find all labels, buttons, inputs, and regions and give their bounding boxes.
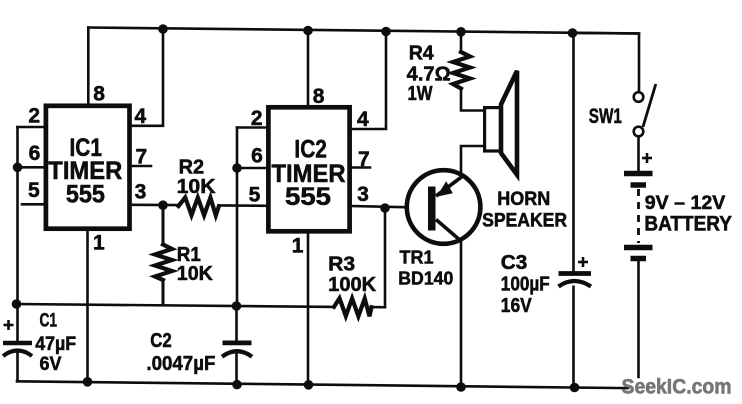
wire TR1 emitter to bottom rail (460, 241, 463, 388)
node top rail / IC1 pin 4 (158, 24, 168, 34)
svg-text:SeekIC.com: SeekIC.com (622, 376, 732, 399)
wire R3 to TR1 base node (371, 306, 385, 309)
label R1 value (177, 244, 214, 285)
resistor R4 (453, 52, 470, 89)
transistor TR1 (407, 170, 481, 244)
node IC2 pin 6 (232, 163, 242, 173)
svg-text:16V: 16V (501, 294, 532, 317)
wire IC1 pins 2-6 vertical to mid rail (16, 127, 19, 304)
node bottom rail / IC2 pin 1 (304, 380, 314, 390)
label R3 value (328, 254, 377, 296)
node top rail / R4 (456, 27, 466, 37)
wire SW1 to battery positive (637, 136, 640, 171)
IC1 text (48, 134, 122, 208)
resistor R3 (334, 298, 372, 316)
svg-text:SW1: SW1 (589, 105, 622, 128)
node IC2 pin 3 / R3 / TR1 base (380, 203, 390, 213)
svg-text:R2: R2 (179, 156, 205, 178)
wire C2 node down (235, 306, 238, 342)
wire IC2 pin 4 to top rail (352, 32, 386, 130)
node IC1 pin 3 / R1 / R2 (158, 200, 168, 210)
svg-text:2: 2 (28, 105, 40, 128)
label battery value (644, 192, 732, 235)
svg-text:3: 3 (135, 181, 147, 204)
svg-text:6: 6 (29, 142, 41, 165)
resistor R2 (179, 197, 219, 215)
node bottom rail / TR1 emitter (456, 382, 466, 392)
svg-text:1W: 1W (408, 83, 433, 105)
svg-text:3: 3 (357, 183, 369, 206)
svg-text:100µF: 100µF (501, 272, 550, 295)
svg-text:8: 8 (313, 85, 325, 108)
node top rail / IC2 pin 8 (303, 26, 313, 36)
polarity plus C3 (578, 257, 588, 267)
wire C1 to bottom rail (16, 354, 19, 382)
wire C2 to bottom rail (235, 354, 238, 385)
IC2 text (272, 136, 346, 211)
pin number labels IC2 (249, 85, 370, 258)
svg-text:SPEAKER: SPEAKER (482, 210, 567, 232)
wire R4 to speaker top terminal (461, 89, 484, 111)
node top rail / IC2 pin 4 (381, 27, 391, 37)
pin number labels IC1 (28, 82, 147, 254)
svg-text:7: 7 (135, 146, 147, 169)
label R4 value (407, 42, 451, 104)
wire IC1 pin 1 to bottom rail (86, 231, 89, 382)
svg-text:6: 6 (251, 145, 263, 168)
wire IC1 pin 2 (18, 126, 44, 129)
wire top supply rail (88, 28, 639, 34)
wire C3 to bottom rail (572, 287, 575, 388)
svg-text:10K: 10K (177, 176, 217, 198)
switch SW1 (634, 84, 656, 136)
svg-text:C1: C1 (40, 310, 58, 332)
polarity plus C1 (4, 320, 14, 330)
svg-text:.0047µF: .0047µF (146, 352, 215, 375)
wire IC2 pin 2 (237, 126, 268, 129)
label R2 value (177, 156, 217, 198)
wire IC2 pin 8 vertical (307, 31, 310, 107)
svg-text:4: 4 (134, 105, 146, 128)
wire node pin3 down to R3 (384, 208, 387, 307)
label C2 value (146, 329, 215, 375)
IC1 555 timer box (46, 106, 130, 229)
wire speaker bottom terminal to TR1 collector (461, 146, 484, 177)
node mid rail / C2 (232, 301, 242, 311)
speaker LS1 horn (485, 71, 517, 175)
battery BT1 (624, 174, 653, 259)
wire IC2 pin 3 to TR1 base (352, 206, 428, 208)
svg-text:5: 5 (28, 179, 40, 202)
svg-text:C2: C2 (150, 329, 172, 352)
svg-text:8: 8 (93, 82, 105, 105)
wire R2 to IC2 pin 5 (219, 204, 267, 207)
svg-text:1: 1 (292, 235, 304, 258)
svg-text:R3: R3 (328, 254, 355, 276)
svg-text:555: 555 (285, 183, 331, 211)
svg-text:555: 555 (66, 180, 105, 208)
capacitor C2 (222, 343, 252, 357)
wire IC2 pin 7 stub (352, 166, 370, 169)
label TR1 value (398, 246, 453, 288)
node bottom rail / C3 (570, 383, 580, 393)
svg-text:BD140: BD140 (398, 268, 453, 289)
svg-text:9V – 12V: 9V – 12V (645, 192, 726, 214)
svg-text:5: 5 (249, 184, 261, 207)
label C3 value (501, 251, 550, 317)
wire mid rail C1 to R3 (17, 304, 335, 307)
wire IC1 pin 5 stub (22, 203, 44, 206)
svg-text:6V: 6V (40, 353, 62, 375)
svg-text:47µF: 47µF (35, 333, 76, 355)
svg-text:C3: C3 (501, 251, 528, 274)
wire C1 node down (16, 304, 19, 341)
wire top rail to C3 (572, 33, 575, 271)
label C1 value (35, 310, 76, 375)
label horn speaker (482, 188, 567, 232)
node bottom rail / C2 (232, 380, 242, 390)
wire IC2 pin 6 (237, 167, 268, 170)
wire IC1 pin 8 vertical (87, 28, 90, 105)
svg-text:100K: 100K (328, 274, 377, 296)
wire IC1 pin 4 to top rail (132, 29, 164, 126)
svg-text:HORN: HORN (497, 188, 550, 210)
svg-text:4: 4 (357, 108, 369, 131)
wire battery negative to bottom rail (637, 261, 640, 377)
node IC1 pin 6 (13, 163, 23, 173)
polarity plus battery (642, 153, 652, 163)
wire bottom ground rail (17, 381, 628, 388)
node mid rail / C1 (12, 299, 22, 309)
wire IC2 pins 2-6 vertical to C2 (236, 128, 239, 307)
svg-text:1: 1 (93, 232, 105, 255)
wire IC1 pin 6 (18, 166, 44, 169)
svg-text:10K: 10K (177, 263, 214, 285)
capacitor C3 (559, 274, 592, 287)
wire top rail to R4 (460, 32, 463, 52)
node bottom rail / IC1 pin 1 (83, 377, 93, 387)
svg-text:7: 7 (358, 148, 370, 171)
node top rail / C3 (568, 28, 578, 38)
svg-text:R4: R4 (409, 42, 435, 64)
wire IC1 pin 7 stub (132, 165, 152, 168)
svg-text:BATTERY: BATTERY (644, 213, 732, 236)
resistor R1 (155, 205, 172, 305)
capacitor C1 (3, 343, 32, 356)
wire IC2 pin 1 to bottom rail (307, 234, 310, 385)
wire top rail corner to SW1 (573, 33, 640, 93)
svg-text:TR1: TR1 (400, 246, 434, 267)
svg-text:2: 2 (251, 107, 263, 130)
IC2 555 timer box (268, 107, 349, 231)
wire IC1 pin 3 to node (132, 204, 179, 207)
